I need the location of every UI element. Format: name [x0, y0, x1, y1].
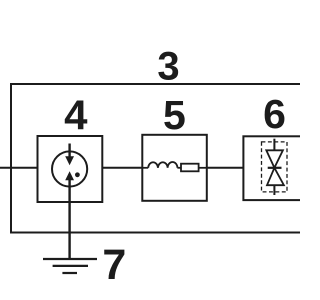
component box 6 (suppressor, clipped at right edge)	[243, 136, 311, 200]
top arrow (pointing down into circle)	[65, 144, 74, 166]
svg-text:4: 4	[64, 92, 88, 139]
svg-text:7: 7	[102, 241, 126, 289]
wire (inductor to resistor)	[177, 167, 181, 169]
enclosure box 3 (large rectangle, clipped at right edge)	[11, 84, 312, 233]
bottom arrow (pointing up into circle)	[65, 171, 74, 180]
svg-text:3: 3	[157, 45, 179, 89]
dot inside circle of box 4	[75, 172, 80, 177]
suppressor bottom diode (triangle pointing up)	[267, 168, 284, 185]
svg-text:6: 6	[263, 91, 286, 137]
wire (input, left edge to box 4)	[0, 167, 38, 169]
component box 5 (filter)	[142, 135, 207, 201]
wire (box 5 left edge to inductor)	[142, 167, 148, 169]
wire (box 4 to box 5)	[102, 167, 142, 169]
suppressor top diode (triangle pointing down)	[266, 150, 283, 168]
sensor circle in box 4	[52, 151, 87, 186]
wire (box 4 bottom to ground)	[68, 180, 70, 259]
component box 4 (sensor)	[38, 136, 103, 202]
svg-text:5: 5	[163, 92, 186, 138]
suppressor top lead	[273, 139, 275, 151]
dashed box around suppressor in box 6	[262, 142, 288, 192]
inductor L in box 5	[148, 162, 177, 168]
suppressor center bar	[268, 167, 282, 169]
wire (box 5 to box 6)	[207, 167, 244, 169]
resistor R in box 5	[181, 164, 199, 172]
suppressor bottom lead	[273, 185, 275, 195]
ground symbol	[43, 259, 97, 273]
wire (resistor to box 5 right edge)	[199, 167, 207, 169]
